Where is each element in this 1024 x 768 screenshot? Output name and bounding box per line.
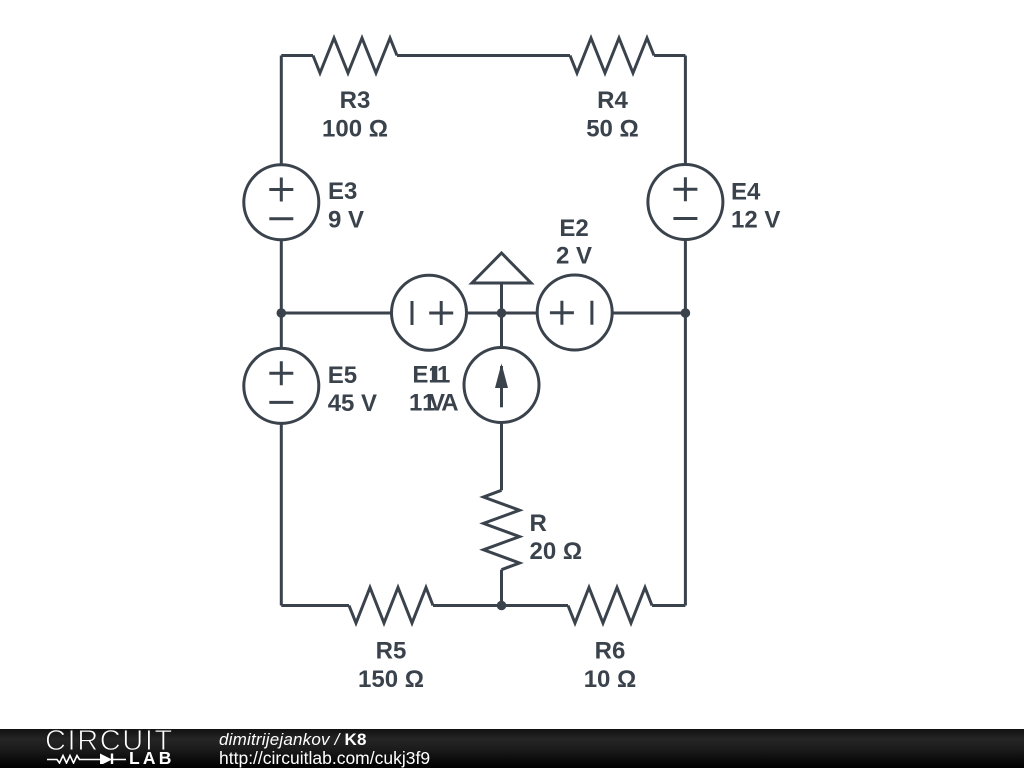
CircuitLab logo wordmark: [45, 727, 174, 756]
wire top-right segment: [654, 54, 685, 57]
resistor R3: [313, 38, 397, 73]
node flag triangle: [472, 253, 531, 313]
label I1 value (overlapping): [422, 362, 458, 417]
CircuitLab logo LAB text: [129, 750, 175, 768]
wire node to current source: [500, 313, 503, 348]
label E2 value: [556, 215, 592, 269]
wire right rail lower: [684, 240, 687, 606]
resistor R5: [349, 588, 433, 624]
wire current source to resistor R: [500, 423, 503, 491]
wire left rail lower: [280, 423, 283, 605]
svg-text:2 V: 2 V: [556, 243, 592, 270]
svg-text:R: R: [530, 510, 547, 537]
svg-text:100 Ω: 100 Ω: [322, 115, 388, 142]
label R value: [530, 510, 583, 565]
svg-text:E3: E3: [328, 178, 357, 205]
node A (left middle junction): [277, 308, 287, 318]
label E4 value: [731, 179, 780, 234]
label E1 value (overlapping): [409, 362, 445, 417]
resistor R6: [568, 588, 652, 624]
label R4 value: [586, 87, 639, 142]
svg-text:9 V: 9 V: [328, 206, 364, 233]
wire left rail upper: [280, 56, 283, 165]
svg-text:R5: R5: [376, 638, 407, 665]
svg-text:150 Ω: 150 Ω: [358, 666, 424, 693]
voltage source E5: [244, 348, 319, 423]
svg-text:12 V: 12 V: [731, 206, 780, 233]
wire middle-right segment: [612, 312, 685, 315]
wire bottom-right segment: [652, 604, 685, 607]
node D (bottom junction): [497, 601, 507, 611]
svg-text:50 Ω: 50 Ω: [586, 115, 639, 142]
voltage source E3: [244, 165, 319, 240]
svg-text:20 Ω: 20 Ω: [530, 538, 583, 565]
svg-text:E2: E2: [559, 215, 588, 242]
footer author line: [219, 731, 367, 748]
svg-text:10 Ω: 10 Ω: [584, 666, 637, 693]
svg-text:I1: I1: [430, 362, 450, 389]
wire resistor R to bottom node: [500, 570, 503, 606]
resistor R: [484, 490, 520, 569]
label R5 value: [358, 638, 424, 693]
svg-text:1 A: 1 A: [422, 390, 458, 417]
wire middle-left segment: [281, 312, 391, 315]
footer bar: [0, 729, 1024, 768]
voltage source E4: [648, 165, 723, 240]
svg-text:E4: E4: [731, 179, 761, 206]
wire bottom-middle segment: [433, 604, 568, 607]
label E3 value: [328, 178, 364, 233]
wire bottom-left segment: [281, 604, 349, 607]
current source I1: [464, 348, 539, 423]
node C (right middle junction): [681, 308, 691, 318]
CircuitLab logo resistor-diode art: [46, 749, 136, 764]
wire top-middle segment: [397, 54, 570, 57]
label E5 value: [328, 362, 377, 417]
wire middle-center segment: [467, 312, 538, 315]
label R3 value: [322, 87, 388, 142]
resistor R4: [570, 38, 654, 73]
svg-text:R6: R6: [595, 638, 626, 665]
voltage source E1: [392, 275, 467, 350]
wire right rail upper: [684, 56, 687, 165]
svg-text:R3: R3: [340, 87, 371, 114]
node B (center middle junction): [497, 308, 507, 318]
label R6 value: [584, 638, 637, 693]
svg-text:R4: R4: [597, 87, 628, 114]
footer url line: [219, 750, 430, 768]
voltage source E2: [537, 275, 612, 350]
wire top-left segment: [281, 54, 313, 57]
svg-text:E5: E5: [328, 362, 357, 389]
svg-text:45 V: 45 V: [328, 390, 377, 417]
wire left rail middle: [280, 240, 283, 349]
